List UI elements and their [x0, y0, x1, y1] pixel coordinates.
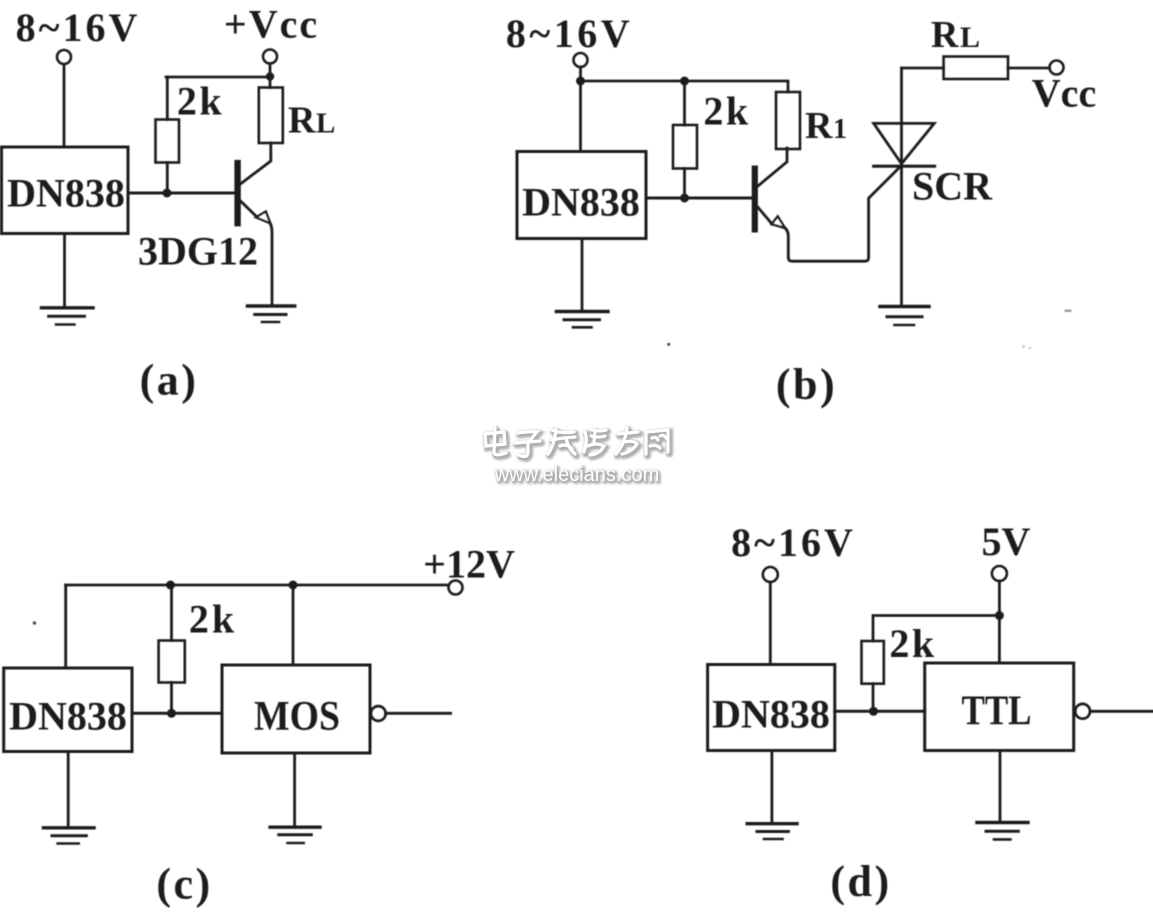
wire DN838 to ground (a) — [63, 234, 66, 307]
wire DN838 to ground (d) — [771, 751, 774, 824]
wire TTL to ground (d) — [999, 751, 1002, 823]
transistor Q1 emitter arrowhead — [256, 212, 270, 224]
wire MOS to ground (c) — [293, 753, 296, 827]
junction base (b) — [680, 194, 689, 203]
svg-text:R: R — [288, 100, 316, 142]
wire DN838 to MOS (c) — [132, 712, 222, 715]
wire base (a) — [128, 192, 235, 195]
svg-text:SCR: SCR — [912, 164, 993, 209]
wire emitter to ground (a) — [270, 224, 272, 306]
junction top rail 2k (b) — [680, 77, 689, 86]
transistor Q2 base bar — [752, 166, 758, 233]
wire Vin to DN838 (a) — [63, 65, 66, 147]
wire +Vcc to RL (a) — [269, 64, 272, 88]
svg-text:8~16V: 8~16V — [16, 5, 141, 50]
svg-text:8~16V: 8~16V — [506, 11, 633, 56]
svg-text:DN838: DN838 — [9, 694, 127, 739]
svg-text:3DG12: 3DG12 — [138, 229, 258, 274]
wire emitter to SCR gate (b) — [785, 166, 901, 261]
wire 5V to TTL (d) — [998, 581, 1001, 663]
transistor Q1 3DG12 base bar — [234, 160, 240, 227]
svg-text:Vcc: Vcc — [1032, 71, 1096, 116]
wire Vin to DN838 (d) — [769, 582, 772, 665]
terminal Vin (d) — [763, 567, 778, 582]
ground (d) DN838 — [747, 824, 797, 839]
junction base (a) — [163, 189, 172, 198]
terminal Vin (b) — [574, 53, 588, 67]
svg-text:DN838: DN838 — [712, 692, 830, 737]
terminal +Vcc (a) — [263, 50, 277, 64]
IC DN838 (d) — [708, 665, 835, 751]
resistor 2k (b) — [673, 81, 697, 198]
ground (b) DN838 — [556, 312, 608, 328]
wire rail to MOS (c) — [292, 585, 295, 665]
IC DN838 (c) — [4, 668, 132, 752]
wire rail to DN838 (c) — [64, 585, 67, 668]
svg-text:DN838: DN838 — [7, 171, 125, 216]
junction Vcc node (a) — [266, 72, 274, 80]
resistor 2k (d) — [862, 641, 884, 711]
ground (a) left — [42, 308, 94, 325]
ground (c) MOS — [270, 827, 320, 843]
wire 2k to 5V rail (d) — [873, 616, 999, 642]
svg-text:+12V: +12V — [423, 542, 515, 587]
resistor R1 (b) — [776, 92, 800, 149]
svg-text:R: R — [805, 105, 833, 147]
wire 2k top to Vcc node (a) — [166, 76, 270, 79]
transistor Q2 emitter line — [758, 207, 772, 224]
wire collector (b) — [758, 148, 787, 186]
watermark url www.elecians.com — [494, 464, 661, 488]
wire DN838 to ground (b) — [581, 239, 584, 312]
svg-text:(c): (c) — [156, 860, 212, 909]
IC DN838 (a) — [2, 147, 129, 234]
wire base (b) — [646, 197, 754, 200]
gate TTL box (d) — [925, 663, 1074, 751]
resistor RL (b) — [944, 57, 1008, 80]
svg-text:MOS: MOS — [254, 694, 340, 740]
svg-text:(a): (a) — [140, 356, 199, 405]
junction output (d) — [869, 707, 878, 716]
inverter bubble MOS (c) — [371, 706, 386, 721]
wire top rail (c) — [66, 584, 449, 587]
transistor Q2 emitter arrowhead — [772, 216, 785, 228]
ground (a) right — [248, 306, 295, 322]
svg-text:(d): (d) — [830, 857, 891, 906]
speck near SCR ground (b) — [1065, 310, 1072, 313]
svg-text:5V: 5V — [982, 519, 1031, 564]
ground (c) DN838 — [43, 828, 94, 844]
wire DN838 to TTL (d) — [835, 710, 925, 713]
svg-text:L: L — [960, 21, 980, 54]
svg-text:R: R — [931, 14, 959, 56]
SCR anode/cathode vertical wire — [900, 68, 903, 306]
svg-text:+Vcc: +Vcc — [224, 2, 319, 47]
svg-text:2k: 2k — [177, 79, 224, 124]
transistor Q1 emitter line — [241, 201, 257, 217]
svg-text:(b): (b) — [776, 360, 837, 409]
wire RL to Vcc terminal (b) — [1008, 67, 1050, 70]
SCR triangle — [874, 123, 935, 163]
wire collector (a) — [241, 143, 271, 184]
svg-text:1: 1 — [833, 114, 847, 145]
speck (c) — [33, 621, 37, 625]
wire anode to RL (b) — [902, 67, 944, 70]
IC DN838 (b) — [517, 152, 646, 239]
terminal 5V (d) — [992, 566, 1007, 581]
SCR cathode bar — [874, 165, 935, 168]
junction rail right (c) — [289, 581, 298, 590]
svg-text:8~16V: 8~16V — [731, 520, 856, 565]
ground (b) SCR — [880, 307, 929, 326]
junction 5V (d) — [995, 611, 1004, 620]
resistor 2k (a) — [156, 77, 180, 193]
svg-text:2k: 2k — [703, 89, 750, 134]
resistor 2k (c) — [159, 585, 185, 713]
wire Vin to DN838 (b) — [579, 67, 582, 152]
svg-text:www.elecians.com: www.elecians.com — [494, 464, 660, 486]
wire TTL output (d) — [1090, 710, 1153, 713]
wire MOS output (c) — [386, 712, 451, 715]
junction Vin (b) — [576, 77, 585, 86]
inverter bubble TTL (d) — [1075, 704, 1090, 719]
svg-text:DN838: DN838 — [522, 180, 640, 225]
resistor RL (a) — [259, 88, 283, 144]
svg-text:2k: 2k — [889, 621, 936, 666]
wire top rail (b) — [581, 81, 789, 92]
svg-text:TTL: TTL — [962, 689, 1032, 735]
terminal Vin (a) — [57, 50, 71, 64]
speck (b) — [667, 343, 670, 346]
svg-text:2k: 2k — [189, 597, 237, 642]
svg-text:L: L — [316, 108, 335, 140]
wire DN838 to ground (c) — [67, 752, 70, 828]
terminal Vcc (b) — [1050, 61, 1064, 75]
junction rail left (c) — [166, 581, 175, 590]
junction output (c) — [167, 709, 176, 718]
gate MOS box (c) — [222, 665, 370, 753]
ground (d) TTL — [977, 823, 1028, 840]
terminal +12V (c) — [449, 581, 463, 595]
